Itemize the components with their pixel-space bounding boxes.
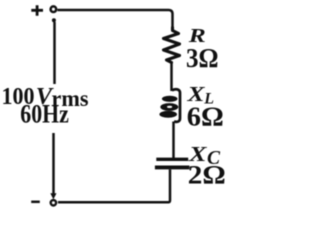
svg-text:3Ω: 3Ω	[186, 43, 219, 73]
svg-text:2Ω: 2Ω	[188, 160, 226, 190]
svg-text:60Hz: 60Hz	[20, 99, 69, 128]
svg-text:6Ω: 6Ω	[187, 101, 224, 131]
